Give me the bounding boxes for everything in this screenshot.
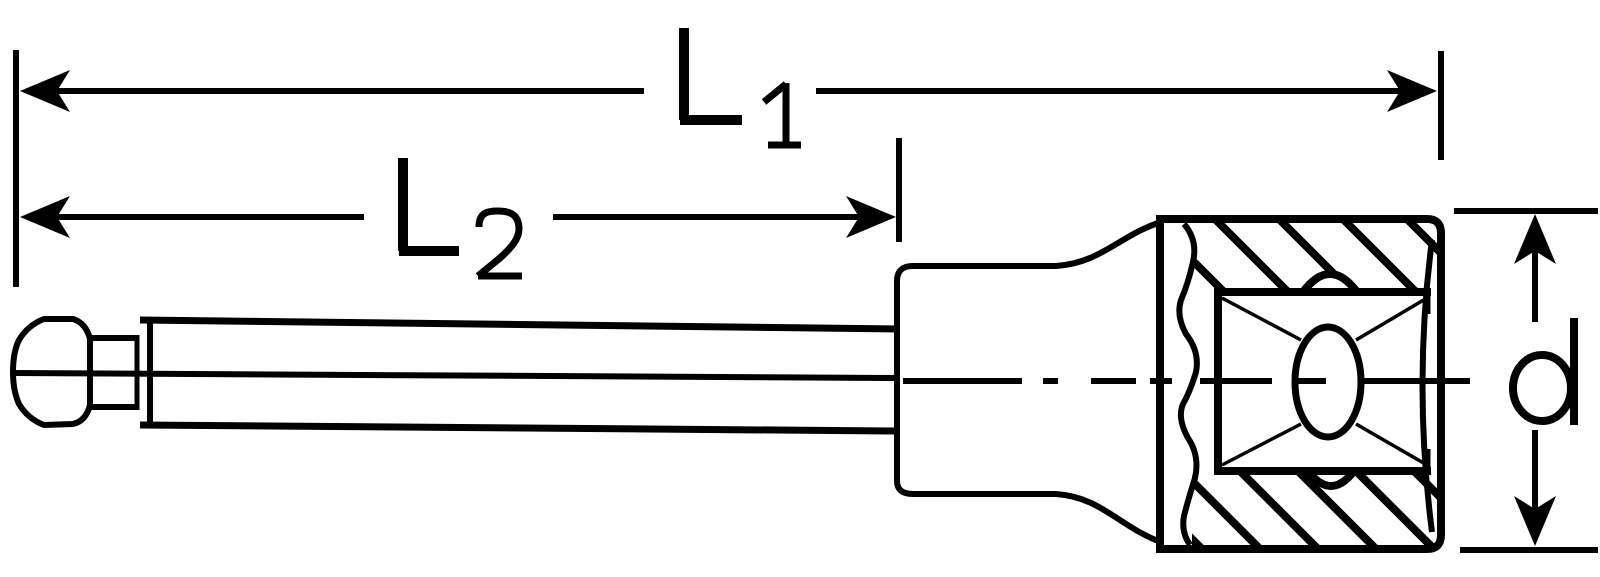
arrowhead L2 left (20, 196, 70, 238)
label L1 : letter L (680, 28, 742, 120)
dimension line d upper stem (1532, 250, 1538, 322)
square diagonal bottom-left (1222, 424, 1301, 465)
square drive recess bottom edge (1214, 467, 1431, 475)
extension line L2 right (896, 138, 902, 242)
label d : bowl (1513, 355, 1571, 421)
square diagonal top-right (1356, 298, 1427, 340)
extension line d top (1454, 208, 1598, 214)
collar front face (897, 266, 913, 494)
square right corner stub top (1424, 292, 1431, 314)
arrowhead d top (1514, 214, 1556, 264)
arrowhead L1 right (1387, 70, 1437, 112)
square drive recess top edge (1214, 288, 1431, 296)
shaft bottom edge (140, 425, 897, 431)
neck groove top edge (90, 335, 137, 341)
shaft hex middle edge line (14, 373, 897, 378)
label d : stem (1570, 318, 1578, 425)
square right corner stub bottom (1424, 449, 1431, 471)
label L1 : subscript 1 (764, 83, 801, 145)
arrowhead L2 right (846, 196, 896, 238)
shaft end chamfer edge (147, 322, 153, 425)
neck end vertical edge (135, 335, 140, 410)
break line wavy (section boundary) (1179, 224, 1197, 545)
pin hole arc bottom (1308, 471, 1354, 486)
label L2 : subscript 2 (478, 211, 522, 276)
dimension line L2 right segment (553, 214, 880, 220)
ball end (13, 319, 90, 425)
label L2 : letter L (399, 158, 459, 251)
extension line left (common for L1 and L2) (13, 50, 19, 287)
dimension line L1 right segment (816, 88, 1420, 94)
square drive recess left edge (1214, 288, 1222, 475)
hatch strokes top band (1150, 218, 1485, 297)
dimension line d lower stem (1532, 430, 1538, 510)
arrowhead d bottom (1514, 496, 1556, 546)
neck groove bottom edge (90, 404, 137, 410)
dimension line L2 left segment (40, 214, 364, 220)
bore far wall arc (right side) (1423, 240, 1433, 532)
socket body outline (1160, 219, 1441, 549)
centerline dash-dot (903, 378, 1470, 384)
shaft top edge (140, 320, 897, 329)
arrowhead L1 left (20, 70, 70, 112)
square diagonal bottom-right (1356, 424, 1427, 465)
collar top edge and rise curve (913, 223, 1158, 266)
hatch strokes bottom band (1124, 471, 1498, 555)
collar bottom edge and drop curve (913, 494, 1158, 541)
extension line L1 right (1438, 51, 1444, 160)
pin hole arc top (1303, 274, 1357, 292)
extension line d bottom (1460, 547, 1598, 553)
square diagonal top-left (1222, 298, 1301, 340)
cross pin hole ellipse (1295, 327, 1361, 437)
dimension line L1 left segment (40, 88, 644, 94)
